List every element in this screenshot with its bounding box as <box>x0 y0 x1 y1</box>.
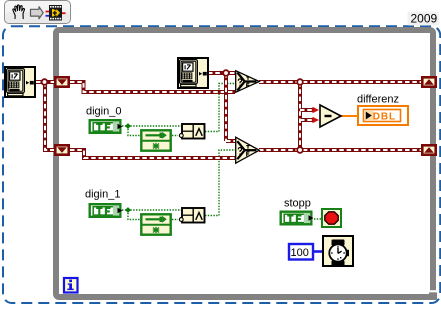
svg-text:differenz: differenz <box>357 94 399 106</box>
svg-text:digin_1: digin_1 <box>85 189 120 201</box>
svg-text:stopp: stopp <box>284 198 311 210</box>
svg-text:DBL: DBL <box>373 111 396 122</box>
svg-text:2009: 2009 <box>411 12 438 26</box>
svg-text:digin_0: digin_0 <box>86 106 121 118</box>
svg-text:100: 100 <box>291 247 309 259</box>
